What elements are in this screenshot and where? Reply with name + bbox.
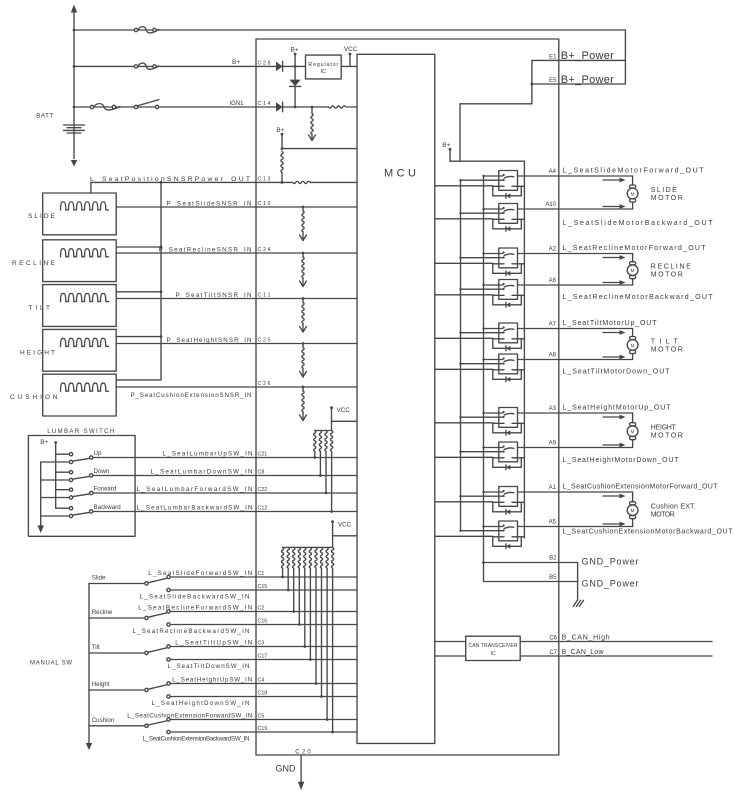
relay K7 (A3) bbox=[499, 408, 518, 428]
arrow RECLINE top bbox=[603, 257, 621, 259]
wire A4 output bbox=[518, 175, 559, 177]
diode relay K5 bbox=[506, 346, 510, 351]
wire A6 output bbox=[518, 284, 559, 286]
wire relay K9 contact feed bbox=[484, 491, 503, 493]
svg-text:C5: C5 bbox=[258, 714, 265, 720]
svg-text:C8: C8 bbox=[258, 470, 265, 476]
svg-text:LUMBAR SWITCH: LUMBAR SWITCH bbox=[47, 429, 114, 435]
wire L_SeatHeightDownSW_IN bbox=[170, 696, 357, 698]
wire manual pullup bus bbox=[283, 546, 333, 548]
resistor manual pullup 3 bbox=[293, 547, 295, 568]
svg-text:C4: C4 bbox=[258, 678, 265, 684]
ground arrow (R2) bbox=[309, 135, 316, 141]
diode relay K2 bbox=[506, 226, 510, 231]
svg-text:L_SeatTiltMotorDown_OUT: L_SeatTiltMotorDown_OUT bbox=[563, 369, 671, 376]
sensor box SLIDE bbox=[43, 193, 117, 235]
svg-text:RECLINE: RECLINE bbox=[651, 264, 691, 271]
wire relay K4 coil feed bbox=[461, 288, 503, 290]
wire B2 GND_Power bbox=[484, 562, 578, 564]
wire E1 B+_Power bbox=[532, 59, 626, 61]
svg-text:C17: C17 bbox=[258, 654, 268, 660]
lumbar switch Forward tap bbox=[56, 489, 69, 491]
arrow HEIGHT bottom bbox=[603, 444, 621, 446]
svg-text:GND_Power: GND_Power bbox=[582, 579, 639, 589]
wire lumbar pullup bus bbox=[315, 430, 332, 432]
wire relay K7 contact feed bbox=[484, 412, 503, 414]
diode relay K9 bbox=[506, 509, 510, 514]
wire L_SeatTiltDownSW_IN bbox=[170, 659, 357, 661]
wire relay K3 coil feed bbox=[461, 257, 503, 259]
wire motor SLIDE top bbox=[559, 175, 633, 177]
arrow SLIDE top bbox=[603, 179, 621, 181]
svg-text:GND_Power: GND_Power bbox=[582, 557, 639, 567]
lumbar switch Forward ground stub bbox=[41, 497, 69, 499]
wire sensor power drop to SLIDE bbox=[90, 182, 92, 193]
motor M-HEIGHT bbox=[630, 423, 636, 426]
lumbar switch Up tap bbox=[56, 453, 69, 455]
svg-text:HEIGHT: HEIGHT bbox=[20, 349, 55, 356]
ground arrow C24 bbox=[300, 281, 307, 287]
svg-text:A8: A8 bbox=[549, 353, 557, 359]
wire sensor signal P_SeatReclineSNSR_IN bbox=[116, 252, 357, 254]
arrow HEIGHT top bbox=[603, 416, 621, 418]
svg-text:MANUAL SW: MANUAL SW bbox=[30, 661, 72, 667]
diode relay K10 bbox=[506, 544, 510, 549]
svg-text:P_SeatSlideSNSR_IN: P_SeatSlideSNSR_IN bbox=[167, 200, 252, 207]
svg-text:C20: C20 bbox=[295, 750, 311, 756]
wire MCU to CAN TX bbox=[435, 641, 466, 643]
svg-text:L_SeatSlideBackwardSW_IN: L_SeatSlideBackwardSW_IN bbox=[140, 593, 250, 600]
svg-text:L_SeatCushionExtensionForwardS: L_SeatCushionExtensionForwardSW_IN bbox=[127, 713, 252, 720]
wire L_SeatSlideBackwardSW_IN bbox=[170, 589, 357, 591]
sensor box TILT bbox=[43, 285, 117, 327]
manual switch Tilt blade bbox=[148, 648, 166, 652]
svg-text:Down: Down bbox=[94, 468, 110, 475]
fuse F3 bbox=[90, 105, 93, 108]
diode D3 bbox=[276, 102, 283, 112]
relay K9 (A1) bbox=[499, 487, 518, 507]
wire motor TILT bottom bbox=[559, 359, 633, 361]
wire relay K6 drive from MCU bbox=[435, 368, 493, 370]
wire C14 IGN input bbox=[256, 106, 357, 108]
ignition switch SW1 bbox=[134, 105, 137, 108]
manual switch bus bbox=[88, 584, 90, 744]
svg-text:MOTOR: MOTOR bbox=[651, 346, 683, 353]
wire top supply line to B+_Power bbox=[74, 29, 625, 31]
svg-text:E1: E1 bbox=[549, 55, 557, 61]
relay K10 (A5) bbox=[499, 521, 518, 541]
svg-text:C22: C22 bbox=[258, 487, 268, 493]
wire L_SeatLumbarBackwardSW_IN bbox=[93, 511, 357, 513]
svg-text:L_SeatHeightDownSW_IN: L_SeatHeightDownSW_IN bbox=[152, 700, 250, 707]
svg-text:M: M bbox=[631, 429, 635, 434]
svg-text:TILT: TILT bbox=[29, 305, 51, 312]
wire motor Cushion EXT. bottom bbox=[559, 526, 633, 528]
svg-text:L_SeatLumbarDownSW_IN: L_SeatLumbarDownSW_IN bbox=[151, 469, 253, 476]
svg-text:Forward: Forward bbox=[94, 485, 117, 492]
ground arrow C25 bbox=[300, 372, 307, 378]
diode relay K8 bbox=[506, 465, 510, 470]
svg-text:MOTOR: MOTOR bbox=[651, 195, 683, 202]
svg-text:CAN TRANSCEIVER: CAN TRANSCEIVER bbox=[469, 643, 518, 649]
svg-text:E5: E5 bbox=[549, 78, 557, 84]
relay K8 (A9) bbox=[499, 442, 518, 462]
wire relay K2 drive from MCU bbox=[435, 218, 493, 220]
svg-text:A6: A6 bbox=[549, 278, 557, 284]
svg-text:C25: C25 bbox=[258, 338, 271, 344]
svg-text:MOTOR: MOTOR bbox=[651, 512, 675, 519]
svg-text:IGN1: IGN1 bbox=[230, 101, 245, 107]
lumbar switch Backward blade bbox=[73, 512, 90, 515]
svg-text:BATT: BATT bbox=[36, 113, 53, 120]
svg-text:C21: C21 bbox=[258, 452, 268, 458]
lumbar switch Forward blade bbox=[73, 494, 90, 497]
svg-text:A3: A3 bbox=[549, 406, 557, 412]
svg-text:GND: GND bbox=[276, 763, 297, 773]
svg-text:MOTOR: MOTOR bbox=[651, 433, 683, 440]
svg-text:A1: A1 bbox=[549, 485, 557, 491]
battery bus up arrow bbox=[71, 5, 77, 13]
lumbar switch Backward tap bbox=[56, 507, 69, 509]
svg-text:L_SeatTiltMotorUp_OUT: L_SeatTiltMotorUp_OUT bbox=[563, 320, 658, 327]
wire VCC to MCU (manual) bbox=[333, 535, 357, 537]
resistor pulldown C26 bbox=[302, 386, 305, 389]
svg-text:CUSHION: CUSHION bbox=[10, 394, 58, 401]
svg-text:C10: C10 bbox=[258, 201, 271, 207]
wire relay K7 drive from MCU bbox=[435, 422, 493, 424]
wire relay K1 drive from MCU bbox=[435, 185, 493, 187]
battery bus wire bbox=[73, 9, 75, 159]
sensor waveform TILT bbox=[61, 294, 109, 302]
svg-text:P_SeatTiltSNSR_IN: P_SeatTiltSNSR_IN bbox=[176, 292, 252, 299]
wire relay K6 coil feed bbox=[461, 363, 503, 365]
svg-text:C3: C3 bbox=[258, 641, 265, 647]
resistor manual pullup 4 bbox=[298, 547, 300, 568]
resistor manual pullup 2 bbox=[287, 547, 289, 568]
svg-text:L_SeatCushionExtensionBackward: L_SeatCushionExtensionBackwardSW_IN bbox=[143, 735, 250, 742]
wire VCC to MCU (lumbar) bbox=[332, 420, 358, 422]
svg-text:A10: A10 bbox=[545, 202, 556, 208]
relay K5 (A7) bbox=[499, 323, 518, 343]
MCU U1 box bbox=[357, 54, 435, 743]
wire L_SeatCushionExtensionForwardSW_IN bbox=[170, 719, 357, 721]
resistor R4 bbox=[293, 181, 310, 183]
lumbar switch Down blade bbox=[73, 476, 90, 479]
ground arrow C11 bbox=[300, 327, 307, 333]
svg-text:L_SeatLumbarUpSW_IN: L_SeatLumbarUpSW_IN bbox=[163, 451, 253, 458]
svg-text:C19: C19 bbox=[258, 726, 268, 732]
wire IGN feed line bbox=[74, 106, 256, 108]
wire relay rail V2 bbox=[483, 176, 485, 582]
svg-text:HEIGHT: HEIGHT bbox=[651, 425, 677, 432]
ground arrow (lumbar) bbox=[38, 525, 44, 533]
relay K2 (A10) bbox=[499, 204, 518, 224]
relay K1 (A4) bbox=[499, 171, 518, 191]
svg-text:B+: B+ bbox=[442, 142, 450, 149]
svg-text:VCC: VCC bbox=[337, 407, 351, 414]
svg-text:VCC: VCC bbox=[344, 46, 358, 53]
wire sensor signal P_SeatHeightSNSR_IN bbox=[116, 343, 357, 345]
lumbar switch Up blade bbox=[73, 458, 90, 461]
svg-text:B+: B+ bbox=[232, 59, 240, 66]
diode relay K4 bbox=[506, 302, 510, 307]
wire C20 GND stub bbox=[300, 755, 302, 782]
wire L_SeatHeightUpSW_IN bbox=[170, 683, 357, 685]
wire motor RECLINE bottom bbox=[559, 284, 633, 286]
svg-text:B_CAN_High: B_CAN_High bbox=[562, 635, 610, 642]
svg-text:C26: C26 bbox=[258, 381, 271, 387]
svg-text:L_SeatTiltDownSW_IN: L_SeatTiltDownSW_IN bbox=[168, 663, 250, 670]
svg-text:L_SeatHeightMotorDown_OUT: L_SeatHeightMotorDown_OUT bbox=[563, 457, 680, 464]
svg-text:B+: B+ bbox=[291, 46, 299, 53]
manual switch Tilt common wire bbox=[89, 652, 145, 654]
svg-text:C11: C11 bbox=[258, 293, 271, 299]
svg-text:TILT: TILT bbox=[651, 339, 679, 346]
svg-text:B+: B+ bbox=[40, 439, 48, 446]
resistor manual pullup 10 bbox=[331, 547, 333, 568]
svg-text:L_SeatHeightUpSW_IN: L_SeatHeightUpSW_IN bbox=[172, 677, 252, 684]
sensor box CUSHION bbox=[43, 374, 117, 416]
relay K4 (A6) bbox=[499, 280, 518, 300]
motor M-Cushion EXT. bbox=[630, 502, 636, 505]
wire relay power rail bbox=[523, 161, 525, 538]
wire B+ rail to MCU bbox=[282, 148, 357, 150]
wire B+_Power right drop bbox=[624, 30, 626, 84]
wire L_SeatReclineForwardSW_IN bbox=[170, 611, 357, 613]
svg-text:L_SeatSlideMotorForward_OUT: L_SeatSlideMotorForward_OUT bbox=[563, 167, 705, 174]
svg-text:B_CAN_Low: B_CAN_Low bbox=[562, 649, 605, 656]
lumbar switch Up ground stub bbox=[41, 461, 69, 463]
diode D2 zener to IGN rail bbox=[294, 66, 296, 79]
svg-text:Up: Up bbox=[94, 450, 102, 457]
wire relay K10 coil feed bbox=[461, 530, 503, 532]
ground arrow (manual sw) bbox=[86, 743, 92, 750]
wire L_SeatCushionExtensionBackwardSW_IN bbox=[170, 731, 357, 733]
wire E5 B+_Power bbox=[532, 83, 626, 85]
ground arrow C26 bbox=[300, 415, 307, 421]
resistor lumbar pullup 2 bbox=[319, 431, 321, 452]
svg-text:C14: C14 bbox=[258, 101, 271, 107]
manual switch Recline common wire bbox=[89, 617, 145, 619]
svg-text:Cushion: Cushion bbox=[92, 717, 115, 724]
wire motor Cushion EXT. top bbox=[559, 491, 633, 493]
wire motor HEIGHT bottom bbox=[559, 447, 633, 449]
wire relay K4 contact feed bbox=[484, 284, 503, 286]
resistor manual pullup 9 bbox=[326, 547, 328, 568]
motor M-SLIDE bbox=[630, 185, 636, 188]
svg-text:SLIDE: SLIDE bbox=[28, 213, 56, 220]
motor M-TILT bbox=[630, 337, 636, 340]
svg-text:M: M bbox=[631, 508, 635, 513]
svg-text:L_SeatHeightMotorUp_OUT: L_SeatHeightMotorUp_OUT bbox=[563, 404, 672, 411]
wire relay rail V1 bbox=[460, 180, 462, 531]
diode relay K7 bbox=[506, 430, 510, 435]
wire relay K9 drive from MCU bbox=[435, 501, 493, 503]
wire A1 output bbox=[518, 491, 559, 493]
wire L_SeatSlideForwardSW_IN bbox=[170, 576, 357, 578]
wire sensor power tap RECLINE bbox=[116, 246, 161, 248]
svg-text:P_SeatCushionExtensionSNSR_IN: P_SeatCushionExtensionSNSR_IN bbox=[131, 392, 252, 399]
wire A8 output bbox=[518, 359, 559, 361]
resistor manual pullup 7 bbox=[315, 547, 317, 568]
wire relay K10 drive from MCU bbox=[435, 535, 493, 537]
node sensor power junction bbox=[160, 181, 163, 184]
svg-text:A4: A4 bbox=[549, 169, 557, 175]
sensor waveform CUSHION bbox=[61, 383, 109, 391]
resistor R1 bbox=[329, 106, 346, 108]
wire relay K8 coil feed bbox=[461, 451, 503, 453]
svg-text:M: M bbox=[631, 268, 635, 273]
svg-text:C12: C12 bbox=[258, 506, 268, 512]
arrow TILT top bbox=[603, 332, 621, 334]
sensor box HEIGHT bbox=[43, 329, 117, 371]
lumbar switch box bbox=[28, 436, 135, 537]
wire sensor signal P_SeatCushionExtensionSNSR_IN bbox=[116, 386, 357, 388]
svg-text:L_SeatLumbarBackwardSW_IN: L_SeatLumbarBackwardSW_IN bbox=[137, 505, 253, 512]
resistor pulldown C25 bbox=[302, 342, 305, 345]
svg-text:IC: IC bbox=[321, 69, 326, 75]
svg-text:L_SeatCushionExtensionMotorFor: L_SeatCushionExtensionMotorForward_OUT bbox=[563, 483, 719, 490]
svg-text:L_SeatReclineForwardSW_IN: L_SeatReclineForwardSW_IN bbox=[138, 605, 252, 612]
wire A10 output bbox=[518, 208, 559, 210]
sensor waveform RECLINE bbox=[61, 249, 109, 257]
svg-text:Tilt: Tilt bbox=[92, 644, 100, 651]
resistor lumbar pullup 3 bbox=[325, 431, 327, 452]
arrow SLIDE bottom bbox=[603, 206, 621, 208]
svg-text:P_SeatReclineSNSR_IN: P_SeatReclineSNSR_IN bbox=[159, 246, 252, 253]
manual switch Slide common wire bbox=[89, 583, 145, 585]
manual switch Cushion common wire bbox=[89, 725, 145, 727]
resistor R2 to ground bbox=[311, 106, 314, 109]
svg-text:C1: C1 bbox=[258, 571, 265, 577]
resistor lumbar pullup 4 bbox=[330, 431, 332, 452]
diode relay K3 bbox=[506, 271, 510, 276]
svg-text:C16: C16 bbox=[258, 619, 268, 625]
svg-text:Height: Height bbox=[92, 681, 110, 688]
manual switch Recline blade bbox=[148, 613, 166, 617]
svg-text:P_SeatHeightSNSR_IN: P_SeatHeightSNSR_IN bbox=[167, 337, 252, 344]
wire A5 output bbox=[518, 526, 559, 528]
svg-text:Regulator: Regulator bbox=[308, 62, 338, 68]
battery bottom arrow bbox=[71, 160, 77, 167]
svg-text:L_SeatTiltUpSW_IN: L_SeatTiltUpSW_IN bbox=[175, 640, 252, 647]
battery B1 symbol bbox=[64, 125, 85, 133]
wire B+_Power internal drop bbox=[531, 60, 533, 103]
svg-text:C13: C13 bbox=[258, 176, 271, 182]
wire A3 output bbox=[518, 412, 559, 414]
wire regulator output VCC bbox=[341, 65, 357, 67]
wire C6 B_CAN_High bbox=[520, 641, 712, 643]
svg-text:C6: C6 bbox=[549, 635, 557, 641]
wire relay K10 contact feed bbox=[484, 526, 503, 528]
wire lumbar ground rail bbox=[40, 462, 42, 525]
wire lumbar B+ bus bbox=[55, 443, 57, 508]
wire C28 B+ input bbox=[256, 65, 306, 67]
svg-text:MCU: MCU bbox=[384, 168, 416, 180]
sensor waveform HEIGHT bbox=[61, 338, 109, 346]
diode relay K6 bbox=[506, 377, 510, 382]
wire L_SeatLumbarUpSW_IN bbox=[93, 457, 357, 459]
ground arrow (C20) bbox=[298, 782, 304, 790]
arrow Cushion EXT. bottom bbox=[603, 523, 621, 525]
sensor box RECLINE bbox=[43, 240, 117, 282]
wire sensor power tap CUSHION bbox=[116, 379, 161, 381]
wire A2 output bbox=[518, 253, 559, 255]
wire sensor power tap TILT bbox=[116, 291, 161, 293]
wire relay K8 drive from MCU bbox=[435, 456, 493, 458]
wire relay K3 drive from MCU bbox=[435, 262, 493, 264]
CAN transceiver U3 box bbox=[466, 636, 521, 660]
svg-text:L_SeatReclineMotorBackward_OUT: L_SeatReclineMotorBackward_OUT bbox=[563, 294, 714, 301]
wire B+ feed line bbox=[74, 65, 256, 67]
svg-text:C24: C24 bbox=[258, 247, 271, 253]
svg-text:L_SeatLumbarForwardSW_IN: L_SeatLumbarForwardSW_IN bbox=[137, 486, 253, 493]
wire A7 output bbox=[518, 328, 559, 330]
svg-text:Recline: Recline bbox=[92, 609, 113, 616]
fuse F2 bbox=[134, 65, 137, 68]
svg-text:M: M bbox=[631, 191, 635, 196]
wire relay K5 contact feed bbox=[484, 328, 503, 330]
ECU outer box bbox=[256, 39, 559, 755]
wire sensor power vertical feed bbox=[160, 182, 162, 380]
wire sensor signal P_SeatTiltSNSR_IN bbox=[116, 298, 357, 300]
svg-text:Slide: Slide bbox=[92, 575, 106, 582]
svg-text:M: M bbox=[631, 343, 635, 348]
resistor manual pullup 5 bbox=[304, 547, 306, 568]
wire motor RECLINE top bbox=[559, 253, 633, 255]
svg-text:C2: C2 bbox=[258, 606, 265, 612]
svg-text:VCC: VCC bbox=[338, 522, 352, 529]
svg-text:L_SeatReclineBackwardSW_IN: L_SeatReclineBackwardSW_IN bbox=[133, 628, 250, 635]
wire motor HEIGHT top bbox=[559, 412, 633, 414]
wire relay K9 coil feed bbox=[461, 495, 503, 497]
lumbar switch Down ground stub bbox=[41, 479, 69, 481]
resistor pulldown C11 bbox=[302, 297, 305, 300]
wire sensor signal P_SeatSlideSNSR_IN bbox=[116, 206, 357, 208]
wire B5 GND_Power bbox=[484, 581, 578, 583]
wire L_SeatLumbarDownSW_IN bbox=[93, 475, 357, 477]
manual switch Height common wire bbox=[89, 689, 145, 691]
svg-text:Cushion EXT.: Cushion EXT. bbox=[651, 504, 696, 511]
resistor R3 bbox=[281, 152, 283, 173]
wire relay K1 coil feed bbox=[461, 179, 503, 181]
wire relay K4 drive from MCU bbox=[435, 294, 493, 296]
svg-text:L_SeatCushionExtensionMotorBac: L_SeatCushionExtensionMotorBackward_OUT bbox=[563, 529, 734, 536]
svg-text:B2: B2 bbox=[549, 556, 557, 562]
svg-text:A7: A7 bbox=[549, 322, 557, 328]
wire motor TILT top bbox=[559, 328, 633, 330]
wire relay K5 drive from MCU bbox=[435, 337, 493, 339]
lumbar switch Backward ground stub bbox=[41, 515, 69, 517]
relay K3 (A2) bbox=[499, 248, 518, 268]
ground arrow C10 bbox=[300, 235, 307, 241]
manual switch Slide blade bbox=[148, 578, 166, 582]
wire relay K5 coil feed bbox=[461, 332, 503, 334]
motor M-RECLINE bbox=[630, 262, 636, 265]
svg-text:L_SeatSlideMotorBackward_OUT: L_SeatSlideMotorBackward_OUT bbox=[563, 220, 714, 227]
svg-text:L_SeatReclineMotorForward_OUT: L_SeatReclineMotorForward_OUT bbox=[563, 245, 707, 252]
wire chassis ground drop bbox=[577, 563, 579, 600]
arrow RECLINE bottom bbox=[603, 282, 621, 284]
manual switch Height blade bbox=[148, 685, 166, 689]
wire relay K2 coil feed bbox=[461, 212, 503, 214]
fuse F1 bbox=[134, 28, 137, 31]
svg-text:A2: A2 bbox=[549, 247, 557, 253]
resistor pulldown C10 bbox=[302, 206, 305, 209]
svg-text:Backward: Backward bbox=[94, 504, 122, 511]
wire C7 B_CAN_Low bbox=[520, 655, 712, 657]
svg-text:MOTOR: MOTOR bbox=[651, 272, 683, 279]
